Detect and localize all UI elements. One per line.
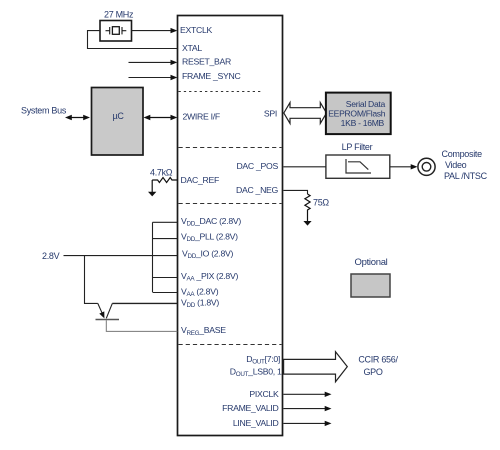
pin label FRAME_SYNC (182, 71, 241, 81)
crystal Y1 symbol (106, 27, 127, 35)
svg-text:System Bus: System Bus (21, 106, 67, 116)
label CCIR 656/GPO (358, 355, 398, 378)
wire power bus vertical (152, 222, 154, 292)
Serial Data EEPROM/Flash box (326, 93, 391, 135)
wire branch VDD_DAC (153, 221, 178, 223)
transistor Q1 emitter with arrow (98, 303, 105, 318)
resistor R1 4.7k label (150, 168, 173, 178)
wire crystal to XTAL (88, 31, 178, 49)
crystal Y1 box (100, 21, 132, 42)
transistor Q1 collector (106, 303, 112, 318)
legend optional gray box (351, 274, 390, 297)
label 2.8V (42, 251, 60, 261)
svg-text:Video: Video (445, 160, 467, 170)
resistor R1 4.7kohm (152, 178, 177, 183)
svg-text:4.7kΩ: 4.7kΩ (150, 168, 173, 178)
section divider dashed 2 (179, 147, 282, 149)
pin label VDD_PLL (181, 232, 238, 244)
wire LINE_VALID output arrow (283, 421, 331, 426)
LP filter symbol (346, 159, 371, 173)
wire 2.8V drop to transistor (85, 256, 98, 304)
section divider dashed 4 (179, 344, 282, 346)
svg-text:27 MHz: 27 MHz (104, 10, 134, 20)
svg-text:DAC _NEG: DAC _NEG (236, 185, 279, 195)
pin label DOUT 7:0 (246, 354, 280, 366)
pin label VDD_DAC (181, 216, 241, 228)
wire branch VAA_PIX (153, 277, 178, 279)
pin label SPI (264, 108, 277, 118)
pin label DOUT_LSB0,1 (230, 367, 282, 379)
pin label PIXCLK (249, 389, 279, 399)
svg-text:µC: µC (113, 111, 125, 121)
svg-text:GPO: GPO (363, 367, 382, 377)
section divider dashed 3 (179, 203, 282, 205)
label Optional (355, 257, 388, 268)
svg-text:FRAME _SYNC: FRAME _SYNC (182, 71, 241, 81)
svg-text:RESET_BAR: RESET_BAR (182, 57, 231, 67)
wire branch VDD_PLL (153, 238, 178, 240)
wire crystal to EXTCLK (132, 28, 178, 33)
pin label DAC_NEG (236, 185, 279, 195)
pin label VDD_IO (182, 249, 233, 261)
pin label RESET_BAR (182, 57, 231, 67)
label LP Filter (342, 142, 373, 152)
svg-text:XTAL: XTAL (182, 43, 202, 53)
pin label VDD (181, 297, 219, 309)
wire uC to 2WIRE I/F double arrow (144, 115, 178, 120)
main block U1 (178, 16, 283, 436)
resistor R2 75ohm (305, 194, 310, 221)
svg-text:LP Filter: LP Filter (342, 142, 373, 152)
wire FRAME_VALID output arrow (283, 406, 331, 411)
pin label XTAL (182, 43, 202, 53)
svg-text:DAC _POS: DAC _POS (236, 161, 278, 171)
wire branch VAA (153, 292, 178, 294)
wire DAC_NEG (283, 190, 307, 194)
svg-text:CCIR 656/: CCIR 656/ (358, 355, 398, 365)
label 75ohm (313, 198, 329, 208)
pin label LINE_VALID (233, 418, 279, 428)
pin label FRAME_VALID (222, 403, 278, 413)
wire R1 to ground (151, 180, 153, 192)
wire LP filter to connector arrow (390, 164, 418, 169)
svg-text:SPI: SPI (264, 108, 277, 118)
wire base to VREG_BASE (106, 320, 177, 331)
label Composite Video PAL/NTSC (442, 149, 488, 181)
pin label 2WIRE I/F (183, 112, 220, 122)
pin label VAA_PIX (181, 271, 238, 283)
svg-text:EXTCLK: EXTCLK (180, 25, 213, 35)
DOUT hollow bus arrow CCIR (284, 352, 348, 382)
pin label EXTCLK (180, 25, 213, 35)
SPI hollow double arrow (284, 103, 327, 124)
svg-text:Serial Data: Serial Data (346, 99, 386, 109)
ground for R2 (303, 221, 311, 226)
wire RESET_BAR input arrow (129, 60, 178, 65)
pin label DAC_POS (236, 161, 278, 171)
svg-text:2WIRE I/F: 2WIRE I/F (183, 112, 220, 122)
LP filter box (326, 155, 390, 178)
svg-text:Composite: Composite (442, 149, 483, 159)
wire FRAME_SYNC input arrow (129, 75, 178, 80)
wire 2.8V to VDD_IO (64, 255, 178, 257)
crystal Y1 label 27 MHz (104, 10, 134, 20)
svg-text:1KB - 16MB: 1KB - 16MB (341, 118, 385, 128)
svg-text:PIXCLK: PIXCLK (249, 389, 279, 399)
wire System Bus double arrow (65, 115, 90, 120)
transistor Q1 base bar (96, 319, 120, 321)
svg-text:LINE_VALID: LINE_VALID (233, 418, 279, 428)
svg-text:PAL /NTSC: PAL /NTSC (444, 171, 488, 181)
connector composite video jack (418, 158, 435, 175)
microcontroller uC box (92, 88, 144, 156)
svg-text:FRAME_VALID: FRAME_VALID (222, 403, 278, 413)
label System Bus (21, 106, 67, 116)
svg-text:Optional: Optional (355, 257, 388, 268)
pin label VREG_BASE (181, 325, 226, 337)
svg-text:2.8V: 2.8V (42, 251, 60, 261)
pin label DAC_REF (181, 175, 219, 185)
wire PIXCLK output arrow (283, 392, 331, 397)
ground for R1 (148, 192, 156, 197)
svg-text:EEPROM/Flash: EEPROM/Flash (328, 108, 386, 118)
svg-text:75Ω: 75Ω (313, 198, 329, 208)
section divider dashed 1 (179, 91, 262, 93)
svg-text:DAC_REF: DAC_REF (181, 175, 219, 185)
wire DAC_POS to LP filter (283, 166, 326, 168)
wire collector to VDD (112, 302, 177, 304)
pin label VAA (181, 286, 219, 298)
